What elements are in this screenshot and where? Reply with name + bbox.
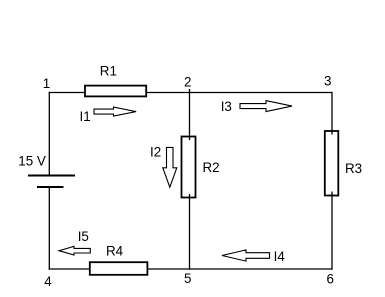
resistor R2 xyxy=(182,137,196,198)
current arrow I5 (left) xyxy=(59,246,90,255)
svg-text:I1: I1 xyxy=(80,109,91,124)
current arrow I3 (right) xyxy=(240,101,292,112)
svg-text:2: 2 xyxy=(184,75,191,90)
R3 top pin tick xyxy=(331,131,333,135)
wire left node1 to battery top plate xyxy=(48,92,50,176)
svg-text:I3: I3 xyxy=(221,99,232,114)
svg-text:1: 1 xyxy=(43,76,50,91)
svg-text:R1: R1 xyxy=(100,63,117,78)
resistor R4 xyxy=(90,262,148,275)
resistor R3 xyxy=(325,131,339,196)
svg-text:15 V: 15 V xyxy=(18,153,46,168)
current arrow I4 (left) xyxy=(222,250,270,261)
svg-text:R4: R4 xyxy=(106,243,124,258)
svg-text:6: 6 xyxy=(327,272,334,287)
svg-text:I4: I4 xyxy=(274,249,286,264)
svg-text:4: 4 xyxy=(44,274,52,289)
battery V1 top plate (long) xyxy=(28,175,75,177)
current arrow I1 (right) xyxy=(94,107,136,116)
wire top node1-node3 xyxy=(49,92,332,94)
svg-text:5: 5 xyxy=(184,271,191,286)
svg-text:R3: R3 xyxy=(345,161,362,176)
wire bottom node4-node6 xyxy=(49,268,332,270)
battery V1 bottom plate (short) xyxy=(37,186,64,188)
svg-text:I5: I5 xyxy=(78,229,89,244)
wire left battery bottom plate to node4 xyxy=(48,187,50,270)
R3 bottom pin tick xyxy=(331,192,333,196)
svg-text:3: 3 xyxy=(324,74,331,89)
current arrow I2 (down) xyxy=(163,147,177,187)
svg-text:R2: R2 xyxy=(203,160,220,175)
R2 bottom pin tick xyxy=(189,194,191,198)
wire right node3-node6 xyxy=(331,92,333,270)
resistor R1 xyxy=(85,86,146,97)
wire middle node2-node5 xyxy=(189,89,191,270)
svg-text:I2: I2 xyxy=(150,145,161,160)
R2 top pin tick xyxy=(189,136,191,140)
